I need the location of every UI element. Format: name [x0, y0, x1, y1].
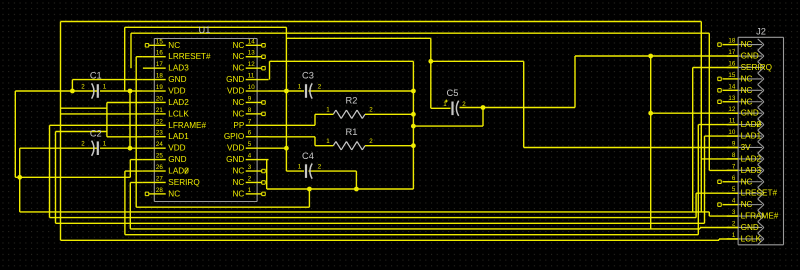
svg-text:11: 11 — [729, 118, 736, 125]
svg-text:23: 23 — [156, 130, 163, 137]
svg-text:NC: NC — [741, 86, 753, 95]
svg-text:1: 1 — [326, 138, 330, 145]
svg-text:C5: C5 — [447, 88, 459, 98]
svg-text:GND: GND — [741, 223, 759, 232]
svg-text:GND: GND — [226, 155, 244, 164]
svg-text:GND: GND — [226, 75, 244, 84]
svg-text:LAD0: LAD0 — [168, 167, 189, 176]
svg-text:8: 8 — [732, 152, 736, 159]
svg-text:13: 13 — [728, 95, 735, 102]
svg-text:16: 16 — [728, 60, 735, 67]
svg-text:21: 21 — [156, 107, 163, 114]
svg-text:SERIRQ: SERIRQ — [741, 63, 772, 72]
svg-text:2: 2 — [81, 141, 85, 148]
svg-text:17: 17 — [728, 49, 735, 56]
svg-text:NC: NC — [232, 64, 244, 73]
svg-text:R1: R1 — [346, 127, 358, 137]
svg-text:1: 1 — [298, 164, 302, 171]
svg-text:16: 16 — [156, 50, 163, 57]
svg-text:5: 5 — [732, 186, 736, 193]
svg-text:9: 9 — [732, 140, 736, 147]
svg-text:NC: NC — [168, 41, 180, 50]
svg-text:2: 2 — [462, 101, 466, 108]
svg-text:14: 14 — [728, 83, 735, 90]
svg-text:PP: PP — [233, 121, 244, 130]
svg-text:LAD1: LAD1 — [741, 132, 762, 141]
svg-text:LAD2: LAD2 — [168, 98, 189, 107]
svg-text:8: 8 — [248, 107, 252, 114]
svg-text:NC: NC — [741, 40, 753, 49]
svg-text:19: 19 — [156, 84, 163, 91]
svg-text:2: 2 — [369, 107, 373, 114]
svg-text:1: 1 — [298, 83, 302, 90]
svg-text:GND: GND — [741, 109, 759, 118]
svg-text:28: 28 — [156, 187, 163, 194]
svg-text:LCLK: LCLK — [741, 234, 762, 243]
svg-text:2: 2 — [369, 138, 373, 145]
svg-text:GPIO: GPIO — [224, 132, 244, 141]
svg-text:LRESET#: LRESET# — [741, 189, 778, 198]
svg-text:C4: C4 — [302, 151, 314, 161]
svg-text:2: 2 — [732, 220, 736, 227]
svg-text:26: 26 — [156, 164, 163, 171]
svg-text:NC: NC — [168, 189, 180, 198]
svg-text:1: 1 — [103, 83, 107, 90]
svg-text:13: 13 — [248, 50, 255, 57]
svg-text:11: 11 — [248, 73, 255, 80]
svg-text:3: 3 — [732, 209, 736, 216]
svg-text:VDD: VDD — [227, 87, 244, 96]
svg-text:NC: NC — [741, 177, 753, 186]
svg-text:14: 14 — [248, 38, 255, 45]
svg-text:2: 2 — [81, 83, 85, 90]
svg-text:7: 7 — [732, 163, 736, 170]
svg-text:GND: GND — [168, 75, 186, 84]
svg-text:20: 20 — [156, 95, 163, 102]
svg-text:3: 3 — [248, 164, 252, 171]
svg-text:LAD2: LAD2 — [741, 154, 762, 163]
svg-text:10: 10 — [248, 84, 255, 91]
svg-text:NC: NC — [232, 189, 244, 198]
svg-text:LAD1: LAD1 — [168, 132, 189, 141]
svg-text:NC: NC — [232, 178, 244, 187]
svg-text:NC: NC — [741, 200, 753, 209]
svg-text:U1: U1 — [199, 25, 211, 35]
svg-text:2: 2 — [318, 164, 322, 171]
svg-text:4: 4 — [248, 153, 252, 160]
svg-text:17: 17 — [156, 61, 163, 68]
svg-text:18: 18 — [156, 73, 163, 80]
svg-text:NC: NC — [232, 41, 244, 50]
svg-text:15: 15 — [156, 38, 163, 45]
svg-text:1: 1 — [326, 107, 330, 114]
svg-text:J2: J2 — [756, 27, 766, 37]
svg-text:12: 12 — [248, 61, 255, 68]
svg-text:LFRAME#: LFRAME# — [741, 212, 779, 221]
svg-text:2: 2 — [318, 83, 322, 90]
svg-text:NC: NC — [741, 97, 753, 106]
svg-text:LAD3: LAD3 — [741, 166, 762, 175]
svg-text:22: 22 — [156, 118, 163, 125]
svg-text:12: 12 — [728, 106, 735, 113]
svg-text:LAD3: LAD3 — [168, 64, 189, 73]
svg-text:1: 1 — [248, 187, 252, 194]
svg-text:C2: C2 — [90, 128, 102, 138]
svg-text:NC: NC — [232, 98, 244, 107]
svg-text:VDD: VDD — [168, 144, 185, 153]
svg-text:3V: 3V — [741, 143, 752, 152]
svg-text:NC: NC — [741, 74, 753, 83]
svg-text:VDD: VDD — [168, 87, 185, 96]
svg-text:7: 7 — [248, 118, 252, 125]
svg-text:2: 2 — [248, 175, 252, 182]
svg-text:SERIRQ: SERIRQ — [168, 178, 199, 187]
svg-text:VDD: VDD — [227, 144, 244, 153]
svg-text:1: 1 — [103, 141, 107, 148]
svg-text:LAD0: LAD0 — [741, 120, 762, 129]
svg-text:18: 18 — [728, 38, 735, 45]
svg-text:NC: NC — [232, 167, 244, 176]
svg-text:6: 6 — [248, 130, 252, 137]
svg-text:27: 27 — [156, 175, 163, 182]
svg-text:4: 4 — [732, 198, 736, 205]
svg-text:GND: GND — [168, 155, 186, 164]
svg-text:9: 9 — [248, 95, 252, 102]
svg-text:25: 25 — [156, 153, 163, 160]
svg-text:NC: NC — [232, 109, 244, 118]
svg-text:C3: C3 — [302, 70, 314, 80]
svg-text:LFRAME#: LFRAME# — [168, 121, 206, 130]
svg-text:GND: GND — [741, 52, 759, 61]
svg-text:1: 1 — [443, 101, 447, 108]
svg-text:C1: C1 — [90, 70, 102, 80]
svg-text:NC: NC — [232, 52, 244, 61]
svg-text:LCLK: LCLK — [168, 109, 189, 118]
svg-text:5: 5 — [248, 141, 252, 148]
svg-text:6: 6 — [732, 175, 736, 182]
svg-text:R2: R2 — [346, 95, 358, 105]
svg-text:10: 10 — [728, 129, 735, 136]
svg-text:1: 1 — [732, 232, 736, 239]
svg-text:LRRESET#: LRRESET# — [168, 52, 211, 61]
svg-text:15: 15 — [728, 72, 735, 79]
svg-text:24: 24 — [156, 141, 163, 148]
